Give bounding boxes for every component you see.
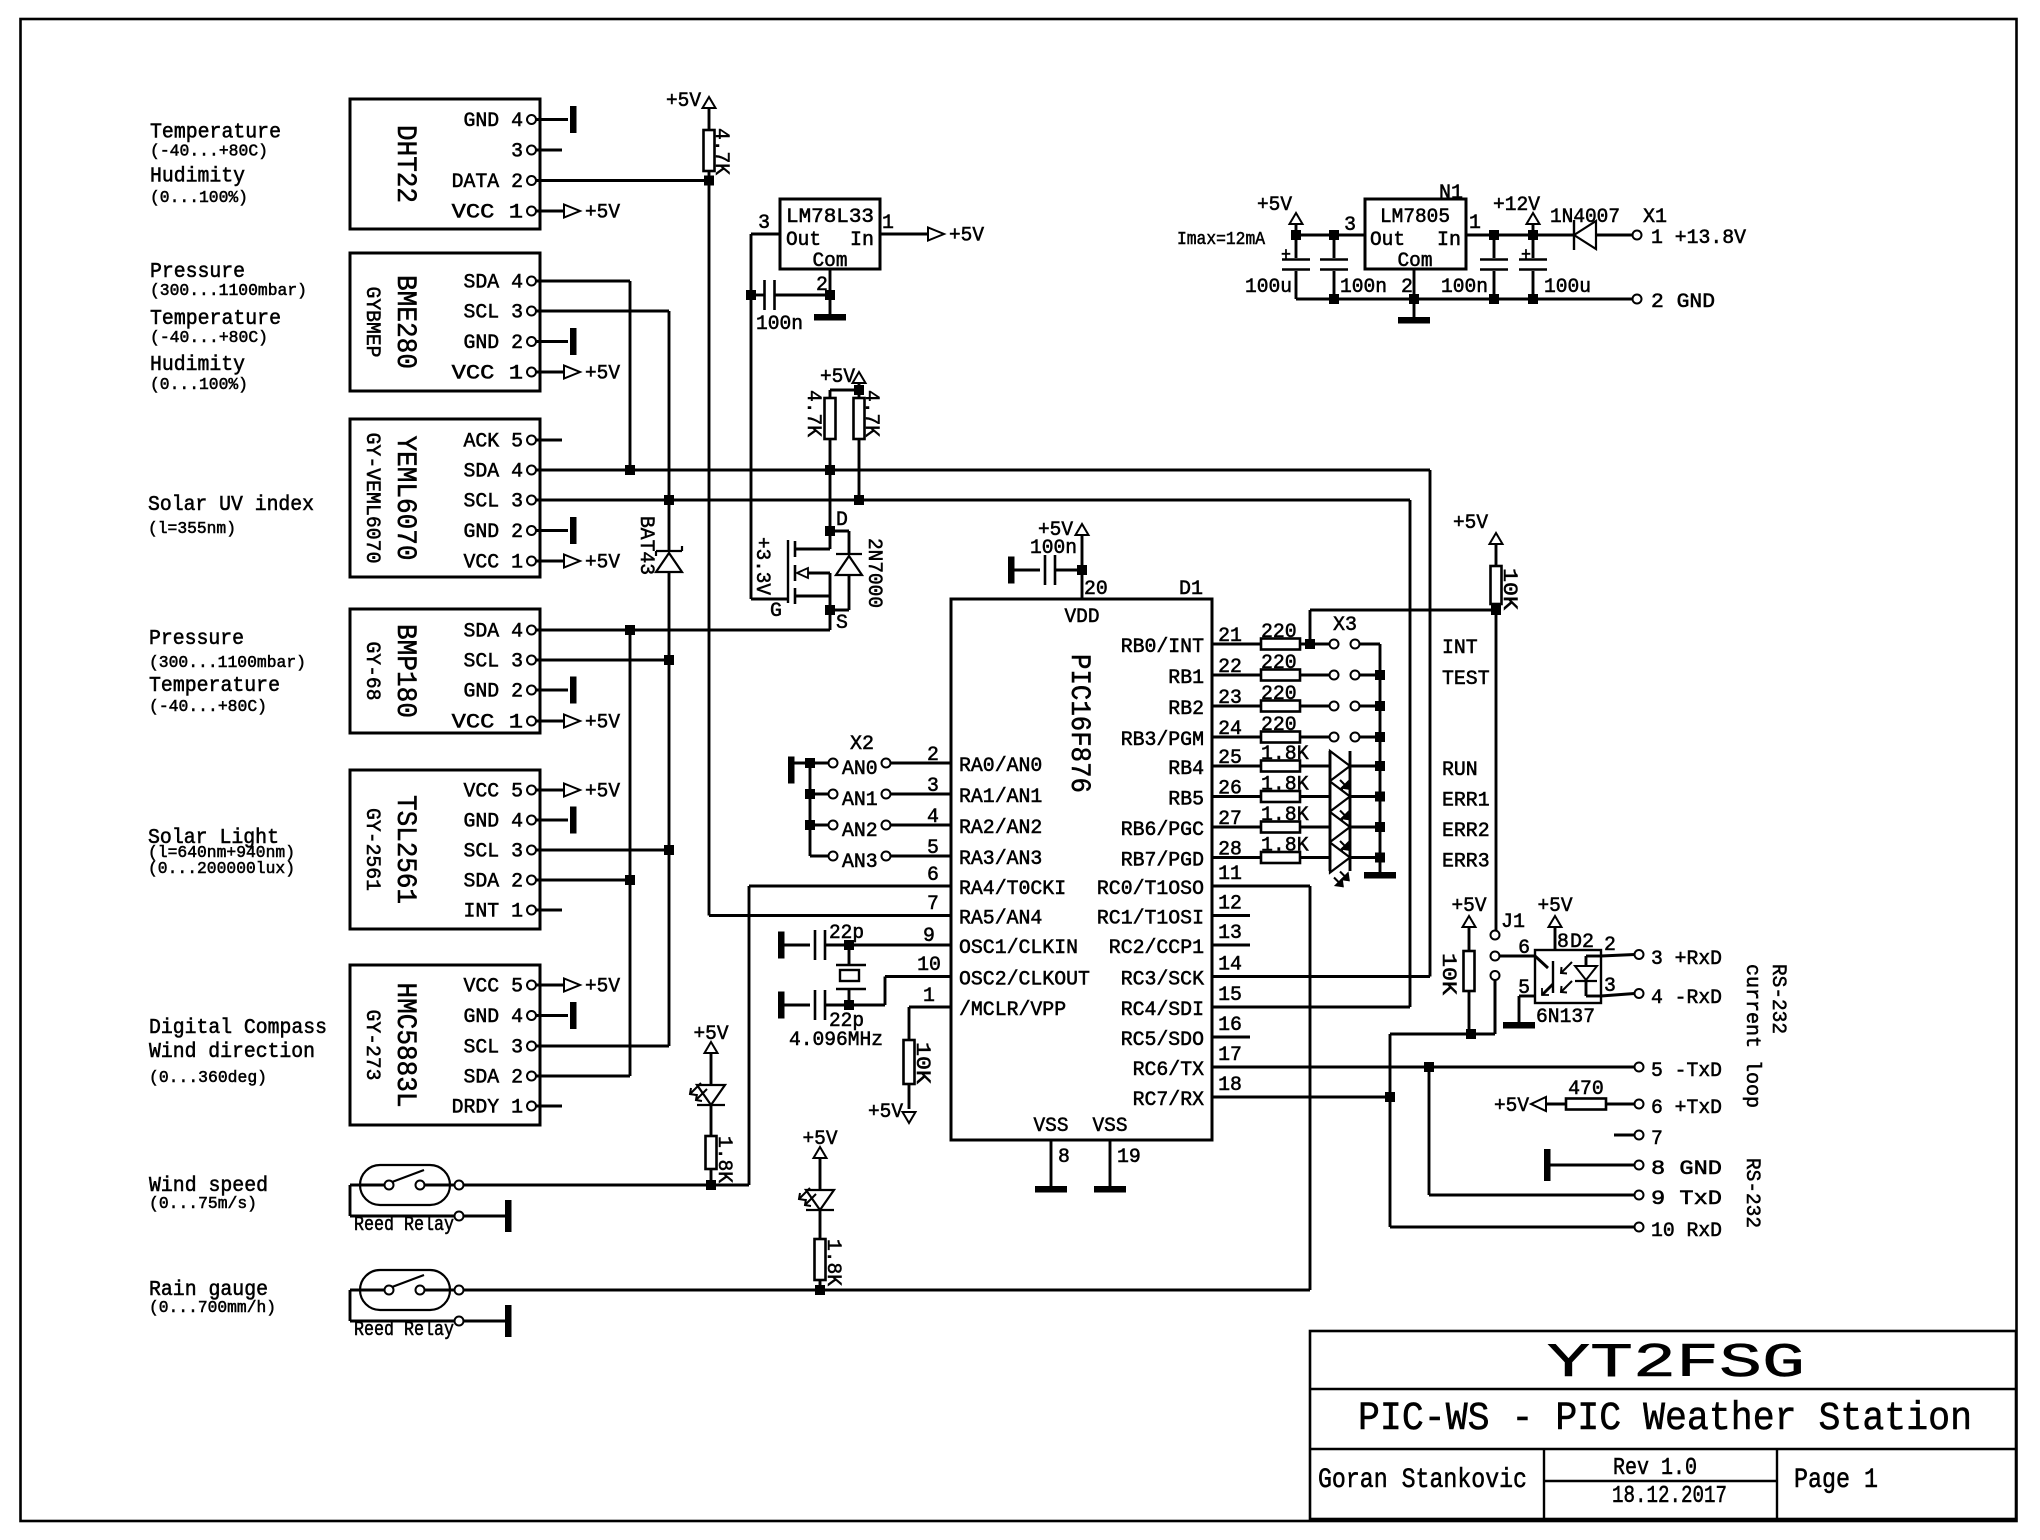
- svg-text:SCL 3: SCL 3: [464, 841, 524, 864]
- 6N137 light arrows: [1561, 962, 1572, 973]
- svg-text:X3: X3: [1333, 614, 1357, 637]
- ground at sensor YEML6070 GND 2: [570, 517, 577, 544]
- svg-text:5 -TxD: 5 -TxD: [1651, 1060, 1722, 1083]
- wire source to S junction: [829, 596, 832, 610]
- svg-text:3: 3: [927, 775, 939, 798]
- svg-text:+5V: +5V: [1452, 895, 1487, 918]
- svg-text:(-40...+80C): (-40...+80C): [150, 143, 268, 162]
- wire YEML6070 SDA / SDA bus to right: [536, 469, 1430, 472]
- regulator N1 LM7805 body: [1365, 199, 1466, 269]
- svg-text:4.7K: 4.7K: [709, 128, 732, 175]
- svg-text:21: 21: [1218, 625, 1242, 648]
- svg-text:2 GND: 2 GND: [1651, 291, 1715, 314]
- capacitor C5 100u electrolytic (5V): [1295, 235, 1298, 258]
- svg-text:+5V: +5V: [585, 712, 620, 735]
- ground bar at X2: [788, 757, 795, 784]
- svg-text:220: 220: [1261, 683, 1297, 706]
- wire 10K to +5V below: [908, 1084, 911, 1109]
- svg-text:Rev 1.0: Rev 1.0: [1613, 1455, 1697, 1482]
- svg-text:BAT43: BAT43: [634, 516, 657, 575]
- sensor HMC5883L pin 5 (VCC 5): [527, 981, 536, 990]
- junction X2 ground column: [805, 758, 815, 768]
- sensor HMC5883L: [350, 965, 540, 1125]
- wire AN1 to PIC pin 3: [891, 793, 952, 796]
- svg-text:Pressure: Pressure: [149, 628, 244, 651]
- svg-text:PIC-WS - PIC Weather Station: PIC-WS - PIC Weather Station: [1358, 1397, 1972, 1442]
- capacitor C8 100u electrolytic (12V): [1532, 235, 1535, 258]
- diode D3 BAT43 (schottky, SCL level shift): [656, 550, 682, 552]
- diode D10 1N4007: [1573, 220, 1575, 250]
- svg-text:+5V: +5V: [868, 1101, 903, 1124]
- +5V supply at rain LED: [814, 1147, 827, 1158]
- PIC pin 20 VDD wire: [1081, 570, 1084, 599]
- svg-text:8 GND: 8 GND: [1651, 1158, 1722, 1181]
- wire BME280 SDA to vertical: [536, 280, 630, 283]
- capacitor C6 100n (5V): [1333, 235, 1336, 258]
- svg-text:14: 14: [1218, 954, 1242, 977]
- connector X3 row 4 pins: [1330, 733, 1339, 742]
- svg-text:VCC 1: VCC 1: [452, 202, 523, 225]
- connector X1 pin 2 GND: [1633, 295, 1642, 304]
- wire rail up to J1 pin3: [1494, 980, 1497, 1035]
- svg-text:INT 1: INT 1: [464, 901, 524, 924]
- svg-text:DHT22: DHT22: [389, 125, 420, 203]
- svg-text:15: 15: [1218, 984, 1242, 1007]
- sensor BMP180: [350, 609, 540, 733]
- svg-text:10K: 10K: [910, 1042, 933, 1084]
- svg-text:28: 28: [1218, 839, 1242, 862]
- svg-text:7: 7: [927, 893, 939, 916]
- sensor HMC5883L pin 2 (SDA 2): [527, 1072, 536, 1081]
- ground at sensor DHT22 GND 4: [570, 106, 577, 133]
- svg-text:100u: 100u: [1245, 276, 1292, 299]
- sensor TSL2561 pin 4 (GND 4): [527, 816, 536, 825]
- svg-text:(-40...+80C): (-40...+80C): [150, 329, 268, 348]
- +5V arrow at sensor YEML6070 VCC 1: [564, 555, 580, 568]
- reed relay S1 (wind speed) ground: [464, 1215, 506, 1218]
- +5V supply at wind LED: [705, 1042, 718, 1053]
- svg-text:Reed Relay: Reed Relay: [354, 1214, 454, 1237]
- svg-text:ERR3: ERR3: [1442, 851, 1490, 874]
- resistor 220 at RB row pin 22: [1212, 674, 1261, 677]
- riser SDA bus right: [1429, 470, 1432, 977]
- junction RxD branch: [1385, 1092, 1395, 1102]
- svg-text:D1: D1: [1179, 578, 1203, 601]
- svg-text:current loop: current loop: [1740, 964, 1763, 1108]
- +5V supply at INT pullup: [1490, 533, 1503, 544]
- LED D9 (rain gauge): [806, 1190, 834, 1210]
- svg-text:+3.3V: +3.3V: [750, 537, 773, 595]
- jumper J1 pin3: [1491, 971, 1500, 980]
- svg-text:N1: N1: [1439, 182, 1463, 205]
- ground at LM78L33 Com: [814, 314, 846, 321]
- svg-text:8: 8: [1557, 931, 1569, 954]
- sensor DHT22 pin 1 (VCC 1): [527, 207, 536, 216]
- svg-text:1 +13.8V: 1 +13.8V: [1651, 227, 1746, 250]
- wire 6N137 pin5 to ground: [1519, 995, 1535, 998]
- connector X4 pin3 +RxD: [1635, 950, 1644, 959]
- connector X2 AN2 pins: [810, 824, 829, 827]
- svg-text:AN1: AN1: [842, 789, 878, 812]
- sensor BME280 pin 4 (SDA 4): [527, 277, 536, 286]
- connector X2 AN3 pins: [810, 855, 829, 858]
- svg-text:19: 19: [1117, 1146, 1141, 1169]
- wire J1 pin2 to 6N137 pin6: [1500, 955, 1536, 958]
- capacitor C1 100n (3.3V): [751, 294, 764, 297]
- capacitor C7 100n (12V): [1493, 235, 1496, 258]
- svg-text:RA3/AN3: RA3/AN3: [959, 848, 1042, 871]
- svg-text:220: 220: [1261, 652, 1297, 675]
- wire R2 to SDA bus: [829, 439, 832, 470]
- svg-text:1N4007: 1N4007: [1550, 206, 1620, 229]
- wire RC6/TX pin17 to -TxD: [1212, 1066, 1635, 1069]
- ground at LM7805: [1398, 317, 1430, 324]
- svg-text:RB5: RB5: [1168, 789, 1204, 812]
- body diode of Q1: [830, 530, 849, 533]
- wire RxD branch down to pin10 RxD: [1389, 1097, 1392, 1227]
- sensor DHT22 pin 3 (3): [527, 146, 536, 155]
- svg-text:22: 22: [1218, 656, 1242, 679]
- wire SCL bus segment to BAT43: [668, 500, 671, 551]
- svg-text:+5V: +5V: [1538, 895, 1573, 918]
- svg-text:100n: 100n: [756, 313, 803, 336]
- svg-text:(l=355nm): (l=355nm): [148, 520, 236, 539]
- svg-text:Pressure: Pressure: [150, 261, 245, 284]
- svg-text:3: 3: [511, 141, 523, 164]
- svg-text:TEST: TEST: [1442, 668, 1490, 691]
- resistor R7 1.8K (rain LED): [815, 1239, 826, 1280]
- 6N137 internal LED: [1586, 955, 1601, 958]
- +5V supply symbol above R 4.7K: [703, 97, 716, 108]
- wire Com to ground symbol: [1413, 299, 1416, 317]
- svg-text:20: 20: [1084, 578, 1108, 601]
- resistor R6 1.8K (wind LED): [706, 1136, 717, 1169]
- wire /MCLR from PIC pin1: [909, 1006, 951, 1009]
- wire VDD to +5V: [1081, 535, 1084, 570]
- junction OSC2/crystal: [844, 1000, 854, 1010]
- junction 100n cap at 3.3V rail: [746, 290, 756, 300]
- wire lower SDA vertical: [629, 630, 632, 1076]
- LED cathode rail: [1349, 751, 1352, 871]
- junction GND row caps: [1329, 294, 1339, 304]
- svg-text:GND 2: GND 2: [464, 681, 524, 704]
- svg-text:(-40...+80C): (-40...+80C): [149, 698, 267, 717]
- svg-text:2: 2: [1604, 934, 1616, 957]
- svg-text:GY-VEML6070: GY-VEML6070: [360, 433, 383, 564]
- svg-text:SDA 4: SDA 4: [464, 461, 524, 484]
- resistor 1.8K at RB row pin 27: [1212, 826, 1261, 829]
- wire DATA net down to RA5 row: [708, 181, 711, 916]
- svg-text:GY-2561: GY-2561: [360, 808, 383, 891]
- svg-text:18.12.2017: 18.12.2017: [1612, 1483, 1727, 1510]
- svg-text:10K: 10K: [1436, 953, 1459, 995]
- wire DATA to PIC RA5/AN4: [709, 914, 951, 917]
- svg-text:+5V: +5V: [949, 225, 984, 248]
- svg-text:9 TxD: 9 TxD: [1651, 1188, 1722, 1211]
- junction R3/SCL bus: [854, 495, 864, 505]
- wire riser to PIC RA4/T0CKI: [749, 885, 951, 888]
- svg-text:RC1/T1OSI: RC1/T1OSI: [1097, 908, 1204, 931]
- svg-text:AN2: AN2: [842, 820, 878, 843]
- junction TxD branch: [1424, 1062, 1434, 1072]
- svg-text:26: 26: [1218, 778, 1242, 801]
- svg-text:9: 9: [923, 925, 935, 948]
- svg-text:25: 25: [1218, 747, 1242, 770]
- wire BMP180 SCL row: [536, 659, 669, 662]
- svg-text:RB6/PGC: RB6/PGC: [1121, 819, 1204, 842]
- svg-text:+5V: +5V: [694, 1023, 729, 1046]
- junction R2/SDA bus/2N7000 drain: [825, 465, 835, 475]
- svg-text:4.7K: 4.7K: [801, 390, 824, 437]
- LED D4 RUN: [1330, 751, 1350, 781]
- svg-text:X1: X1: [1643, 206, 1667, 229]
- +12V supply symbol: [1527, 213, 1540, 224]
- svg-text:RB3/PGM: RB3/PGM: [1121, 729, 1204, 752]
- svg-text:1.8K: 1.8K: [1261, 743, 1309, 766]
- wire LM78L33 Out pin3 to 3.3V rail: [751, 233, 780, 236]
- svg-text:VCC 5: VCC 5: [464, 781, 524, 804]
- sensor BMP180 pin 1 (VCC 1): [527, 717, 536, 726]
- svg-text:SDA 2: SDA 2: [464, 871, 524, 894]
- svg-text:OSC2/CLKOUT: OSC2/CLKOUT: [959, 969, 1090, 992]
- sensor BMP180 pin 4 (SDA 4): [527, 626, 536, 635]
- svg-text:RS-232: RS-232: [1766, 964, 1789, 1034]
- svg-text:4.7K: 4.7K: [859, 390, 882, 437]
- svg-text:2: 2: [927, 744, 939, 767]
- wire crystal top: [848, 945, 851, 965]
- sensor BME280 pin 1 (VCC 1): [527, 368, 536, 377]
- svg-text:VSS: VSS: [1093, 1115, 1128, 1138]
- svg-text:24: 24: [1218, 718, 1242, 741]
- svg-text:VCC 1: VCC 1: [452, 712, 523, 735]
- connector X4 pin10 RxD: [1635, 1223, 1644, 1232]
- stub RC1/T1OSI pin12: [1212, 914, 1250, 917]
- svg-text:1.8K: 1.8K: [712, 1136, 735, 1183]
- resistor R5 10K (INT pullup): [1495, 604, 1498, 610]
- svg-text:Reed Relay: Reed Relay: [354, 1319, 454, 1342]
- svg-text:SCL 3: SCL 3: [464, 491, 524, 514]
- svg-text:AN0: AN0: [842, 758, 878, 781]
- svg-text:HMC5883L: HMC5883L: [389, 983, 420, 1108]
- sensor HMC5883L pin 4 (GND 4): [527, 1011, 536, 1020]
- sensor YEML6070 pin 4 (SDA 4): [527, 466, 536, 475]
- wire source down to SDA 3.3V row: [829, 610, 832, 630]
- svg-text:Wind direction: Wind direction: [149, 1041, 315, 1064]
- +5V arrow at sensor HMC5883L VCC 5: [564, 979, 580, 992]
- svg-text:SCL 3: SCL 3: [464, 651, 524, 674]
- sensor BMP180 pin 3 (SCL 3): [527, 656, 536, 665]
- connector X3 row 2 pins: [1330, 671, 1339, 680]
- connector X4 pin6 +TxD: [1635, 1100, 1644, 1109]
- svg-text:GY-68: GY-68: [360, 642, 383, 701]
- wire +5V to resistor: [708, 108, 711, 130]
- svg-text:VCC 1: VCC 1: [452, 363, 523, 386]
- junction 100n right: [1489, 230, 1499, 240]
- LED anode rail: [1329, 751, 1332, 871]
- LED D7 ERR3: [1330, 843, 1350, 873]
- wire +5V to pullup pair: [858, 383, 861, 390]
- junction VDD/100n: [1077, 565, 1087, 575]
- sensor TSL2561: [350, 770, 540, 929]
- resistor 1.8K at RB row pin 25: [1212, 765, 1261, 768]
- svg-text:Imax=12mA: Imax=12mA: [1177, 230, 1265, 250]
- sensor YEML6070 pin 3 (SCL 3): [527, 496, 536, 505]
- svg-text:X2: X2: [850, 733, 874, 756]
- svg-text:DRDY 1: DRDY 1: [452, 1097, 523, 1120]
- svg-text:100n: 100n: [1441, 276, 1488, 299]
- svg-text:6 +TxD: 6 +TxD: [1651, 1097, 1722, 1120]
- +5V supply at 6N137 pin8: [1554, 927, 1557, 950]
- svg-text:(0...100%): (0...100%): [150, 376, 248, 395]
- svg-text:BME280: BME280: [389, 275, 420, 369]
- svg-text:(0...700mm/h): (0...700mm/h): [149, 1299, 276, 1318]
- sensor BME280 pin 2 (GND 2): [527, 337, 536, 346]
- regulator U2 LM78L33 body: [780, 199, 880, 269]
- stub RC2/CCP1 pin13: [1212, 944, 1250, 947]
- connector X4 pin4 -RxD: [1635, 989, 1644, 998]
- wire wind reed to RA4 riser: [464, 1184, 712, 1187]
- wire DHT22 DATA pin2 to node: [536, 179, 709, 182]
- svg-text:PIC16F876: PIC16F876: [1063, 654, 1094, 793]
- resistor 1.8K at RB row pin 26: [1212, 795, 1261, 798]
- capacitor C4 100n (VDD decoupling): [1011, 569, 1040, 572]
- svg-text:TSL2561: TSL2561: [389, 795, 420, 904]
- sensor YEML6070: [350, 419, 540, 577]
- svg-text:OSC1/CLKIN: OSC1/CLKIN: [959, 937, 1078, 960]
- svg-text:100n: 100n: [1340, 276, 1387, 299]
- reed relay S2 (rain gauge): [360, 1270, 450, 1310]
- svg-text:4.096MHz: 4.096MHz: [789, 1029, 883, 1052]
- jumper J1 pin2: [1491, 952, 1500, 961]
- connector X1 pin 1 +13.8V: [1633, 231, 1642, 240]
- wire INT net down to J1 pin1: [1495, 610, 1498, 931]
- resistor R8 10K (current loop): [1463, 916, 1476, 927]
- connector X4 pin5 -TxD: [1635, 1063, 1644, 1072]
- svg-text:LM7805: LM7805: [1380, 206, 1450, 229]
- wire drain vertical: [829, 470, 832, 531]
- resistor 220 at RB row pin 24: [1212, 736, 1261, 739]
- junction DATA/pullup: [704, 176, 714, 186]
- svg-text:1.8K: 1.8K: [1261, 835, 1309, 858]
- sensor DHT22: [350, 99, 540, 229]
- svg-text:10 RxD: 10 RxD: [1651, 1220, 1722, 1243]
- junction 10K pulldown rail: [1466, 1029, 1476, 1039]
- svg-text:16: 16: [1218, 1014, 1242, 1037]
- sensor DHT22 pin 4 (GND 4): [527, 115, 536, 124]
- transistor Q1 2N7000 drain junction: [825, 526, 835, 536]
- svg-text:10: 10: [917, 954, 941, 977]
- svg-text:1.8K: 1.8K: [1261, 804, 1309, 827]
- svg-text:7: 7: [1651, 1128, 1663, 1151]
- svg-text:+: +: [1521, 246, 1531, 266]
- ground at VSS pin19: [1094, 1186, 1126, 1193]
- svg-text:2: 2: [1401, 276, 1413, 299]
- optocoupler D2 6N137 body: [1535, 950, 1601, 1003]
- svg-text:4 -RxD: 4 -RxD: [1651, 987, 1722, 1010]
- svg-text:6: 6: [1518, 937, 1530, 960]
- X3 ground bus: [1379, 644, 1382, 872]
- ground at sensor TSL2561 GND 4: [570, 807, 577, 834]
- svg-text:RA0/AN0: RA0/AN0: [959, 755, 1042, 778]
- ground at sensor HMC5883L GND 4: [570, 1002, 577, 1029]
- connector X4 pin9 TxD: [1635, 1191, 1644, 1200]
- sensor TSL2561 pin 1 (INT 1): [527, 906, 536, 915]
- LM78L33 Com pin2 wire down: [829, 269, 832, 295]
- LED D8 (wind speed): [697, 1085, 725, 1105]
- +5V supply at LM7805 output: [1290, 213, 1303, 224]
- +5V arrow at sensor DHT22 VCC 1: [564, 205, 580, 218]
- sensor TSL2561 pin 3 (SCL 3): [527, 846, 536, 855]
- svg-text:RC5/SDO: RC5/SDO: [1121, 1029, 1204, 1052]
- sensor DHT22 pin 2 (DATA 2): [527, 176, 536, 185]
- svg-text:1: 1: [923, 985, 935, 1008]
- capacitor C3 22p (OSC2): [814, 990, 817, 1020]
- svg-text:GND 2: GND 2: [464, 332, 524, 355]
- svg-text:SDA 2: SDA 2: [464, 1067, 524, 1090]
- wire AN2 to PIC pin 4: [891, 824, 952, 827]
- svg-text:220: 220: [1261, 714, 1297, 737]
- junction 100u right / +12V: [1528, 230, 1538, 240]
- svg-text:1: 1: [1469, 212, 1481, 235]
- svg-text:RC3/SCK: RC3/SCK: [1121, 969, 1204, 992]
- wire BAT43 to lower SCL segment: [668, 572, 671, 1046]
- riser SCL bus right: [1409, 500, 1412, 1007]
- LED D5 ERR1: [1330, 782, 1350, 812]
- svg-text:Page 1: Page 1: [1794, 1465, 1878, 1496]
- svg-text:18: 18: [1218, 1074, 1242, 1097]
- wire SDA vertical upper segment: [629, 281, 632, 470]
- wire AN0 to PIC pin 2: [891, 762, 952, 765]
- sensor HMC5883L pin 1 (DRDY 1): [527, 1102, 536, 1111]
- sensor YEML6070 pin 2 (GND 2): [527, 526, 536, 535]
- sensor YEML6070 pin 5 (ACK 5): [527, 436, 536, 445]
- svg-text:GND 4: GND 4: [464, 811, 524, 834]
- junction TSL2561 SDA: [625, 875, 635, 885]
- svg-text:2N7000: 2N7000: [862, 538, 885, 608]
- sensor BME280 pin 3 (SCL 3): [527, 307, 536, 316]
- wire LED row to ground bus: [1350, 765, 1380, 768]
- svg-text:GYBMEP: GYBMEP: [360, 287, 383, 358]
- svg-text:RC7/RX: RC7/RX: [1133, 1089, 1204, 1112]
- +5V arrow at sensor TSL2561 VCC 5: [564, 784, 580, 797]
- svg-text:J1: J1: [1501, 911, 1525, 934]
- svg-text:Temperature: Temperature: [150, 122, 281, 145]
- svg-text:3: 3: [758, 212, 770, 235]
- svg-text:+5V: +5V: [666, 90, 701, 113]
- junction SCL bus: [664, 495, 674, 505]
- svg-text:(300...1100mbar): (300...1100mbar): [149, 654, 306, 673]
- junction rain LED / reed wire: [815, 1285, 825, 1295]
- crystal Y1 4.096MHz: [836, 964, 866, 966]
- sensor HMC5883L pin 3 (SCL 3): [527, 1042, 536, 1051]
- wire resistor to DATA junction: [708, 171, 711, 181]
- svg-text:17: 17: [1218, 1044, 1242, 1067]
- svg-text:(0...200000lux): (0...200000lux): [148, 860, 295, 879]
- wire HMC5883L SCL row: [536, 1045, 669, 1048]
- junction OSC1/crystal: [844, 940, 854, 950]
- svg-text:1.8K: 1.8K: [821, 1239, 844, 1286]
- wire LM7805 In to X1 pin1: [1466, 234, 1574, 237]
- svg-text:Out: Out: [786, 229, 821, 252]
- svg-text:BMP180: BMP180: [389, 624, 420, 718]
- svg-text:RB0/INT: RB0/INT: [1121, 636, 1204, 659]
- svg-text:1.8K: 1.8K: [1261, 774, 1309, 797]
- +5V supply at PIC VDD: [1076, 524, 1089, 535]
- svg-text:Hudimity: Hudimity: [150, 354, 245, 377]
- svg-text:VCC 5: VCC 5: [464, 976, 524, 999]
- +5V arrow at sensor BMP180 VCC 1: [564, 715, 580, 728]
- resistor R2 4.7K (SDA pullup): [825, 398, 836, 439]
